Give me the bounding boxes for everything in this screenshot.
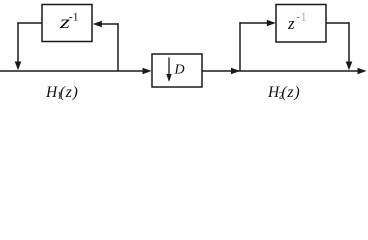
wire out of right side of Z2: [326, 22, 350, 24]
downsampler block U2: [152, 54, 202, 87]
svg-text:D: D: [174, 63, 185, 78]
svg-text:H: H: [45, 84, 58, 101]
wire feedback down-left vertical of H1: [17, 22, 19, 64]
wire main line after downsampler: [202, 70, 361, 72]
arrowhead into left side of Z2: [267, 20, 276, 27]
delay block Z2: [276, 5, 326, 43]
down arrow glyph inside U2: [168, 58, 170, 77]
label z^-1 of Z2: [287, 10, 307, 33]
svg-text:-1: -1: [69, 12, 79, 24]
label z^-1 of Z1: [59, 12, 79, 33]
svg-text:(z): (z): [60, 84, 79, 101]
wire feedback top-left horizontal of H1: [17, 22, 42, 24]
wire from tap up-right into Z1: [97, 23, 119, 25]
arrowhead down onto input junction of H1: [15, 62, 22, 71]
delay block Z1: [42, 5, 92, 42]
arrowhead at H2 input junction: [231, 68, 240, 75]
arrowhead into downsampler U2: [143, 68, 152, 75]
arrowhead main output: [358, 68, 367, 75]
label H2(z): [267, 84, 300, 102]
wire tap vertical of H1: [117, 23, 119, 71]
wire output down vertical of H2: [348, 22, 350, 64]
wire tap vertical of H2: [239, 22, 241, 71]
label H1(z): [45, 84, 79, 102]
wire main input line: [0, 70, 146, 72]
svg-text:z: z: [287, 14, 295, 33]
arrowhead into right side of Z1: [93, 21, 102, 28]
arrowhead down onto output junction of H2: [346, 62, 353, 71]
svg-text:1: 1: [301, 10, 307, 24]
svg-text:(z): (z): [281, 84, 300, 101]
wire tap horizontal into Z2: [239, 22, 271, 24]
